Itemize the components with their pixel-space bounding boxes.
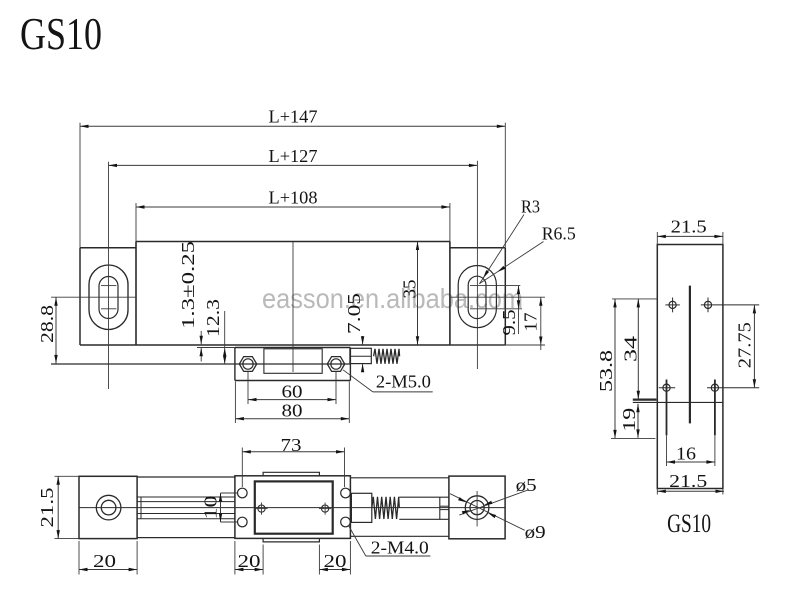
svg-text:19: 19 bbox=[619, 408, 639, 432]
dim 73 bbox=[241, 448, 243, 488]
svg-text:20: 20 bbox=[93, 551, 116, 571]
dim 27.75 bbox=[753, 305, 755, 388]
rails left gap bbox=[137, 496, 235, 498]
front view left mounting ear bbox=[79, 248, 81, 345]
svg-text:28.8: 28.8 bbox=[37, 305, 57, 343]
spring (front) bbox=[374, 349, 400, 364]
head window (bottom view) bbox=[255, 481, 333, 533]
svg-text:GS10: GS10 bbox=[667, 509, 711, 538]
side view body rectangle bbox=[657, 245, 723, 489]
left ear slot inner obround bbox=[99, 277, 118, 319]
svg-text:R3: R3 bbox=[521, 197, 540, 217]
bottom view right end block bbox=[449, 476, 505, 539]
dim 19 bbox=[637, 404, 639, 438]
svg-text:2-M5.0: 2-M5.0 bbox=[376, 372, 431, 392]
svg-text:80: 80 bbox=[282, 401, 303, 421]
front view right mounting ear bbox=[504, 248, 506, 345]
reading head window (front) bbox=[264, 349, 322, 374]
window crosshair circles bbox=[258, 505, 265, 512]
head screw holes 4x bbox=[238, 488, 248, 498]
svg-text:16: 16 bbox=[676, 444, 696, 464]
dim L+147 bbox=[80, 125, 505, 127]
bottom view reading head bbox=[235, 476, 351, 539]
dim 9.5 bbox=[470, 285, 520, 287]
dim 21.5 (bottom view left) bbox=[55, 475, 80, 477]
svg-text:27.75: 27.75 bbox=[735, 322, 755, 368]
dim 1.3 +/-0.25 bbox=[197, 347, 235, 349]
dim 60 bbox=[248, 399, 336, 401]
head bottom notch bbox=[263, 538, 319, 542]
dim 10 bbox=[221, 492, 238, 494]
mounting face thick mark bbox=[633, 399, 657, 401]
bottom view center line bbox=[79, 507, 505, 509]
svg-text:ø9: ø9 bbox=[525, 522, 546, 542]
dim 7.05 bbox=[362, 336, 364, 345]
hex screw right (front) bbox=[327, 357, 344, 372]
dim 16 bbox=[666, 435, 668, 466]
svg-text:35: 35 bbox=[400, 280, 420, 299]
left ear slot ticks bbox=[101, 285, 116, 287]
right ear slot outer obround bbox=[458, 266, 496, 328]
svg-text:1.3±0.25: 1.3±0.25 bbox=[178, 241, 198, 329]
svg-text:34: 34 bbox=[621, 336, 641, 362]
tube edges right gap bbox=[350, 477, 449, 479]
tube edges left gap bbox=[137, 476, 235, 478]
dim 35 bbox=[417, 242, 419, 345]
dim 53.8 bbox=[612, 298, 657, 300]
front view body outline bbox=[136, 241, 450, 243]
right ear slot inner obround bbox=[468, 276, 486, 318]
left ear slot outer obround bbox=[89, 265, 128, 330]
svg-text:20: 20 bbox=[238, 551, 261, 571]
svg-text:L+147: L+147 bbox=[269, 107, 318, 127]
side view top holes bbox=[669, 301, 676, 308]
svg-text:21.5: 21.5 bbox=[669, 471, 707, 491]
dim 28.8 bbox=[55, 297, 57, 363]
dim 20 right bbox=[318, 545, 320, 575]
dim 34 bbox=[637, 299, 639, 399]
spring (bottom view) bbox=[372, 497, 400, 519]
dim L+127 bbox=[109, 164, 478, 166]
dim 12.3 bbox=[224, 311, 226, 364]
svg-text:10: 10 bbox=[201, 496, 221, 520]
right ear center lines bbox=[476, 161, 478, 369]
svg-text:7.05: 7.05 bbox=[344, 293, 364, 334]
dim 20 left bbox=[78, 541, 80, 575]
head top notch bbox=[263, 472, 319, 476]
svg-text:21.5: 21.5 bbox=[671, 217, 707, 237]
dim 20 middle bbox=[234, 541, 236, 575]
drive rod block (front) bbox=[350, 348, 371, 363]
svg-text:ø5: ø5 bbox=[516, 475, 537, 495]
bottom view left end block bbox=[79, 476, 137, 538]
wide rod (bottom view) bbox=[351, 493, 371, 522]
svg-text:L+108: L+108 bbox=[269, 187, 318, 207]
svg-text:53.8: 53.8 bbox=[596, 350, 616, 392]
svg-text:20: 20 bbox=[324, 551, 347, 571]
thin rod (bottom view) bbox=[399, 496, 449, 498]
head center line bbox=[292, 242, 294, 372]
hex screw left (front) bbox=[239, 357, 256, 372]
dim 17 bbox=[450, 344, 545, 346]
svg-text:L+127: L+127 bbox=[269, 146, 318, 166]
svg-text:R6.5: R6.5 bbox=[542, 224, 576, 244]
svg-text:12.3: 12.3 bbox=[203, 299, 223, 337]
svg-text:73: 73 bbox=[281, 435, 302, 455]
left ear center lines bbox=[108, 162, 110, 389]
screw center line bbox=[51, 363, 350, 365]
svg-text:9.5: 9.5 bbox=[499, 310, 519, 336]
dim 21.5 (side top) bbox=[656, 232, 658, 245]
svg-text:easson.en.alibaba.com: easson.en.alibaba.com bbox=[262, 283, 523, 314]
dim 21.5 (side bottom) bbox=[656, 489, 658, 495]
reading head outline (front) bbox=[235, 347, 351, 349]
left block hole circles bbox=[96, 495, 121, 520]
side view bottom holes with studs bbox=[663, 384, 670, 391]
dim 80 bbox=[235, 418, 349, 420]
svg-text:21.5: 21.5 bbox=[37, 488, 57, 528]
svg-text:17: 17 bbox=[521, 313, 541, 332]
right block circles bbox=[465, 496, 489, 520]
svg-text:2-M4.0: 2-M4.0 bbox=[371, 538, 429, 558]
svg-text:GS10: GS10 bbox=[20, 9, 102, 59]
svg-text:60: 60 bbox=[282, 382, 303, 402]
dim L+108 bbox=[136, 206, 450, 208]
side view center line bbox=[689, 286, 691, 424]
